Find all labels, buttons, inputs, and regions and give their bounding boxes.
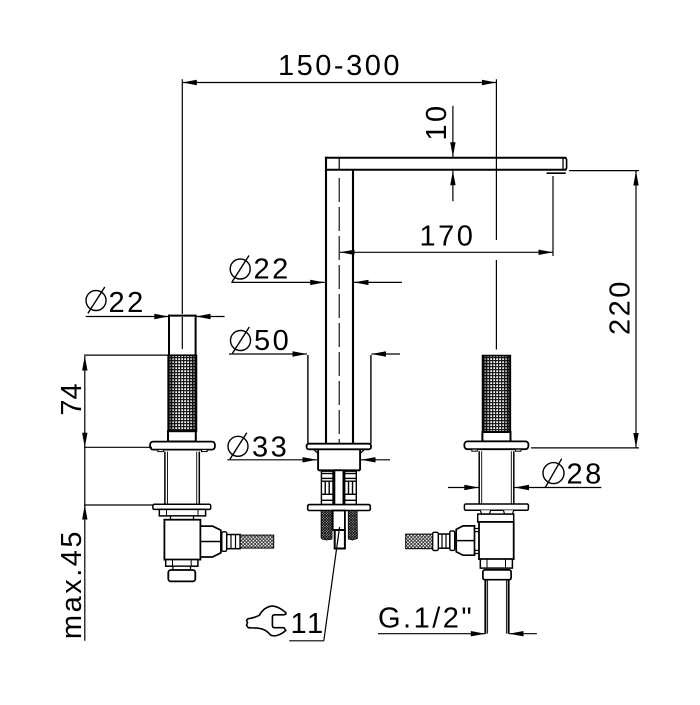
wrench icon xyxy=(247,606,286,636)
right tail pipe inner walls xyxy=(487,580,489,634)
right extension line lower part xyxy=(495,260,497,350)
left shank outer walls xyxy=(164,452,166,505)
dim 220 bottom extension xyxy=(531,447,639,449)
svg-text:220: 220 xyxy=(605,279,637,335)
svg-text:150-300: 150-300 xyxy=(278,50,402,82)
svg-text:50: 50 xyxy=(254,325,291,357)
right tail collar xyxy=(483,570,511,580)
spout arm bottom edge xyxy=(325,169,567,171)
svg-text:11: 11 xyxy=(291,608,326,640)
right lock washer xyxy=(464,504,528,510)
right tail pipe walls xyxy=(484,580,486,634)
deck hatch right column xyxy=(348,511,357,541)
dim 74 bottom extension xyxy=(84,446,152,448)
left bottom neck xyxy=(173,566,191,570)
leader underline at wrench label xyxy=(289,640,324,642)
svg-text:74: 74 xyxy=(56,383,88,415)
left compression collar xyxy=(222,532,227,552)
left shank inner walls xyxy=(167,452,169,505)
left handle tube right wall xyxy=(195,315,197,356)
arrow max45 xyxy=(82,505,87,520)
right flange tab left xyxy=(472,449,478,451)
dim D33 line xyxy=(227,459,317,461)
left handle tube top edge xyxy=(168,315,197,317)
arrows G12 xyxy=(471,631,486,636)
D33 cylinder bevel left xyxy=(314,450,318,454)
base cylinder D50 right wall xyxy=(370,355,372,444)
leader line to wrench label xyxy=(324,527,340,641)
diameter symbol D33 xyxy=(228,436,248,456)
right valve body xyxy=(479,522,514,559)
left flange tab left xyxy=(158,450,164,452)
right lock nut xyxy=(478,514,514,522)
dim 74 / max45 vertical line xyxy=(84,356,86,641)
spout arm top edge xyxy=(325,157,567,159)
left valve bottom plate xyxy=(166,560,198,567)
dim 10 lower line xyxy=(452,171,454,202)
right hose collar xyxy=(433,532,439,550)
svg-text:max.45: max.45 xyxy=(56,529,88,639)
diameter symbol left D22 xyxy=(86,291,106,311)
deck hatch left column xyxy=(321,511,332,541)
left braided hose xyxy=(240,535,274,548)
dim G12 line xyxy=(378,633,485,635)
spout arm right end cap outer xyxy=(563,158,567,170)
base cylinder D50 left wall xyxy=(307,355,309,444)
left handle knurl xyxy=(168,355,196,431)
spout arm right end cap inner line xyxy=(562,158,564,170)
arrows center D22 xyxy=(310,280,325,285)
arrows 220 xyxy=(633,171,638,186)
left extension line from 150-300 dim xyxy=(181,79,183,314)
svg-text:22: 22 xyxy=(109,287,146,319)
spout vertical tube right wall xyxy=(352,170,354,444)
right shank inner walls xyxy=(481,451,483,504)
svg-text:170: 170 xyxy=(420,221,476,253)
right flange tab right xyxy=(516,449,522,451)
arrows left D22 xyxy=(154,314,169,319)
arrows D28 xyxy=(464,485,479,490)
spout outlet line under arm end xyxy=(547,172,566,174)
right handle collar xyxy=(482,432,510,441)
D33 cylinder right wall xyxy=(359,449,361,470)
right valve bottom nut xyxy=(480,559,512,568)
svg-text:33: 33 xyxy=(252,432,289,464)
dim 10 upper line xyxy=(452,106,454,157)
dim D50 line xyxy=(229,353,307,355)
right compression collar xyxy=(450,531,455,551)
D33 cylinder bottom edge xyxy=(318,469,360,471)
right extension line upper part xyxy=(495,79,497,240)
D33 cylinder bevel right xyxy=(360,450,364,454)
spout dashed center axis xyxy=(338,178,340,447)
dim 74 top extension xyxy=(84,354,168,356)
right inlet fitting xyxy=(345,471,357,504)
center washer plate xyxy=(308,505,371,511)
svg-text:22: 22 xyxy=(254,254,291,286)
right handle deck flange xyxy=(464,441,528,449)
dim 170 right extension line xyxy=(552,176,554,256)
diameter symbol D28 xyxy=(543,463,564,484)
diameter symbol D50 xyxy=(231,331,251,351)
left inlet fitting xyxy=(321,471,333,504)
right compression nut xyxy=(438,534,450,548)
svg-text:G.1/2": G.1/2" xyxy=(378,603,474,635)
D33 cylinder left wall xyxy=(317,449,319,470)
left valve body xyxy=(164,520,200,560)
arrows D33 xyxy=(303,457,318,462)
dim 220 line xyxy=(635,171,637,448)
left handle inner center line xyxy=(181,317,183,349)
spout arm left inner line xyxy=(338,158,340,170)
left side hex fitting xyxy=(200,526,221,557)
left lock nut xyxy=(159,509,205,516)
arrows 170 xyxy=(340,250,355,255)
dim max45 bottom extension xyxy=(84,504,153,506)
left valve neck xyxy=(171,516,194,520)
right side hex fitting xyxy=(456,526,474,555)
center tube through fittings xyxy=(334,470,343,510)
left handle tube left wall xyxy=(168,315,170,356)
diameter symbol center D22 xyxy=(230,259,250,279)
left handle collar xyxy=(168,431,196,441)
right washer trapezoid marks xyxy=(480,510,490,514)
arrows 74 xyxy=(82,356,87,371)
arrows 150-300 xyxy=(182,80,197,85)
dim 150-300 line xyxy=(182,82,496,84)
dim 220 top extension xyxy=(569,170,639,172)
right shank outer walls xyxy=(478,451,480,504)
right braided hose xyxy=(406,534,433,549)
spout vertical tube left wall xyxy=(325,157,327,444)
dim left D22 line xyxy=(86,316,169,318)
arrows D50 xyxy=(293,351,308,356)
dim center D22 line xyxy=(231,281,324,283)
left handle deck flange xyxy=(150,442,215,450)
center lower tube lower part xyxy=(335,530,345,549)
svg-text:10: 10 xyxy=(421,103,453,140)
left bottom cap xyxy=(168,570,195,581)
left compression nut xyxy=(227,535,240,549)
left flange tab right xyxy=(202,450,208,452)
center deck flange xyxy=(307,444,371,450)
svg-text:28: 28 xyxy=(567,459,604,491)
left lock washer xyxy=(153,504,211,509)
arrows 10 xyxy=(450,142,455,157)
dim 170 line xyxy=(340,251,553,253)
right handle knurl xyxy=(483,356,511,432)
dim D28 line xyxy=(448,487,479,489)
center lower tube upper part xyxy=(333,511,345,531)
